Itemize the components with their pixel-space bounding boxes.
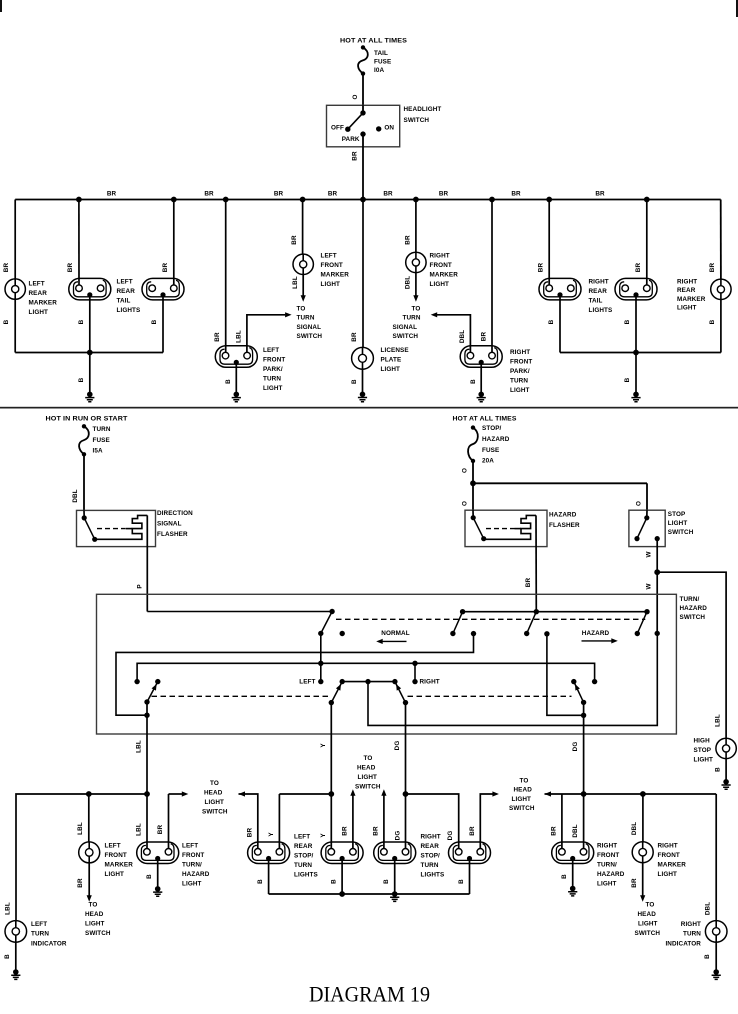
wire DBL right park/turn to arrow: [437, 315, 470, 353]
lamp RIGHT REAR TAIL LIGHTS (left): [539, 278, 581, 300]
svg-text:HEAD: HEAD: [85, 911, 104, 918]
hazard flasher arm: [473, 518, 484, 539]
svg-text:TAIL: TAIL: [374, 50, 388, 57]
hazard arm middle: [527, 612, 537, 634]
svg-text:BR: BR: [274, 191, 284, 198]
arrowhead marker to head light switch: [87, 895, 92, 902]
wire right tail A ground drop: [559, 295, 561, 353]
lamp LEFT FRONT PARK/TURN LIGHT: [215, 346, 257, 368]
value label STOP/HAZARD FUSE 20A: [482, 425, 510, 465]
svg-text:RIGHT: RIGHT: [597, 843, 617, 850]
svg-text:BR: BR: [214, 332, 221, 342]
svg-text:BR: BR: [372, 826, 379, 836]
svg-text:LIGHT: LIGHT: [381, 366, 401, 373]
wire right ground collector: [560, 352, 721, 354]
ground left turn indicator: [11, 969, 20, 979]
wire flasher input stub: [83, 510, 85, 518]
bus label BR x=278.5: [274, 191, 284, 198]
contact line C left: [134, 679, 139, 684]
bus label BR x=209: [204, 191, 214, 198]
svg-text:LIGHT: LIGHT: [658, 871, 678, 878]
svg-text:LIGHT: LIGHT: [358, 774, 378, 781]
svg-text:LBL: LBL: [136, 823, 143, 836]
label RIGHT TURN INDICATOR: [665, 921, 701, 947]
svg-text:W: W: [646, 583, 653, 589]
svg-text:SWITCH: SWITCH: [202, 808, 228, 815]
fuse STOP/HAZARD FUSE 20A: [468, 425, 478, 463]
junction right ground collector: [633, 350, 639, 356]
pivot rocker right: [403, 700, 408, 705]
svg-text:LIGHT: LIGHT: [638, 920, 658, 927]
junction on BR bus x=646.8: [644, 197, 650, 203]
svg-text:STOP/: STOP/: [482, 425, 502, 432]
node TO TURN SIGNAL SWITCH (left): [297, 305, 323, 340]
wire bus to license plate light: [362, 200, 364, 348]
svg-text:O: O: [352, 94, 359, 99]
svg-text:HAZARD: HAZARD: [680, 605, 708, 612]
svg-text:SWITCH: SWITCH: [85, 930, 111, 937]
svg-text:ON: ON: [384, 125, 394, 132]
wire P output of direction flasher: [146, 515, 148, 611]
svg-text:BR: BR: [595, 191, 605, 198]
svg-text:B: B: [4, 954, 11, 959]
hazard flasher box: [465, 510, 547, 546]
wire lamp3 ground drop: [341, 859, 343, 895]
wire DBL to right turn indicator: [715, 794, 717, 921]
contact turn arm end: [318, 631, 323, 636]
wire line B (LBL loop): [116, 634, 474, 716]
svg-text:LIGHT: LIGHT: [105, 871, 125, 878]
fuse TAIL FUSE 10A: [358, 45, 368, 76]
label PARK: [342, 136, 360, 143]
svg-text:TURN: TURN: [421, 862, 439, 869]
wire tail B ground drop: [162, 295, 164, 353]
svg-text:TURN: TURN: [294, 862, 312, 869]
svg-text:HEAD: HEAD: [638, 911, 657, 918]
svg-text:PARK/: PARK/: [263, 366, 283, 373]
label HAZARD: [582, 630, 610, 637]
svg-text:B: B: [458, 879, 465, 884]
arrowhead LBL to turn signal switch: [285, 312, 292, 317]
stop light switch arm: [637, 518, 647, 539]
arrowhead left pivot arm: [152, 683, 159, 691]
svg-text:BR: BR: [550, 826, 557, 836]
svg-text:TURN/: TURN/: [680, 596, 700, 603]
label RIGHT FRONT MARKER LIGHT (top): [430, 253, 459, 289]
svg-text:LEFT: LEFT: [321, 253, 337, 260]
svg-text:FRONT: FRONT: [658, 852, 680, 859]
svg-text:B: B: [624, 319, 631, 324]
svg-text:LIGHT: LIGHT: [694, 757, 714, 764]
arrowhead BR to head light switch (1): [182, 791, 189, 796]
wire bus end down to right rear marker: [720, 200, 722, 280]
direction signal flasher box: [77, 510, 156, 546]
wire lamp2 ground: [157, 859, 159, 887]
wire right front marker to turn signal switch: [415, 273, 417, 297]
svg-text:BR: BR: [3, 263, 10, 273]
svg-text:MARKER: MARKER: [29, 300, 58, 307]
svg-text:LIGHTS: LIGHTS: [117, 307, 141, 314]
junction left ground collector: [87, 350, 93, 356]
arrowhead to turn signal switch text (left): [301, 295, 306, 302]
svg-text:B: B: [561, 874, 568, 879]
wire DBL distribution right: [584, 793, 717, 795]
arrowhead to turn signal switch text (right): [413, 295, 418, 302]
svg-text:INDICATOR: INDICATOR: [31, 940, 67, 947]
svg-text:BR: BR: [631, 878, 638, 888]
wire bus to left tail lamp B: [173, 200, 175, 285]
svg-text:O: O: [461, 501, 468, 506]
ground left front turn/hazard: [153, 886, 162, 896]
rocker arm right: [395, 682, 406, 703]
net label HOT AT ALL TIMES (top): [340, 37, 407, 44]
svg-text:LIGHT: LIGHT: [510, 387, 530, 394]
svg-text:DG: DG: [447, 831, 454, 841]
svg-text:LIGHT: LIGHT: [321, 281, 341, 288]
svg-text:STOP: STOP: [694, 747, 712, 754]
wire fuse to headlight switch: [362, 74, 364, 106]
lamp LEFT REAR STOP/TURN LIGHTS (B): [321, 842, 363, 864]
arrowhead rocker arm right: [394, 683, 401, 691]
svg-text:TURN: TURN: [93, 426, 111, 433]
svg-text:RIGHT: RIGHT: [677, 279, 697, 286]
hazard arm right: [637, 612, 647, 634]
junction right pivot / hazard contact wire: [581, 713, 586, 718]
svg-text:BR: BR: [328, 191, 338, 198]
svg-text:SWITCH: SWITCH: [355, 783, 381, 790]
wire left front marker to head light switch: [88, 863, 90, 896]
svg-text:LBL: LBL: [292, 276, 299, 289]
contact normal (isolated): [340, 631, 345, 636]
bus label BR x=388: [383, 191, 393, 198]
label LEFT FRONT MARKER LIGHT (top): [321, 253, 350, 289]
arrowhead HAZARD: [611, 638, 618, 643]
wire BR arrow lamp2: [169, 793, 183, 795]
svg-text:DG: DG: [572, 742, 579, 752]
wire BR lamp6 left terminal: [561, 794, 563, 849]
svg-text:TURN: TURN: [683, 931, 701, 938]
svg-text:SWITCH: SWITCH: [635, 930, 661, 937]
svg-text:HOT AT ALL TIMES: HOT AT ALL TIMES: [340, 37, 407, 44]
bus label BR x=600: [595, 191, 605, 198]
svg-text:B: B: [3, 319, 10, 324]
svg-text:BR: BR: [511, 191, 521, 198]
rocker arm left: [331, 682, 342, 703]
wire W into turn/hazard switch: [656, 572, 658, 633]
svg-text:B: B: [146, 874, 153, 879]
junction W stop feed: [654, 569, 660, 575]
svg-text:TO: TO: [412, 305, 421, 312]
wire bus to right front marker: [415, 200, 417, 253]
svg-text:PARK: PARK: [342, 136, 360, 143]
arrowhead BR lamp5 to head light switch: [492, 791, 499, 796]
svg-text:MARKER: MARKER: [677, 296, 706, 303]
contact LEFT: [318, 679, 323, 684]
direction flasher arm: [84, 518, 95, 539]
wire DG to lamp4 right terminal: [405, 794, 407, 849]
svg-text:SWITCH: SWITCH: [404, 117, 430, 124]
lamp RIGHT REAR MARKER LIGHT: [711, 279, 731, 299]
svg-text:MARKER: MARKER: [105, 862, 134, 869]
label NORMAL: [381, 630, 409, 637]
svg-text:LIGHT: LIGHT: [29, 309, 49, 316]
label LEFT REAR MARKER LIGHT: [29, 281, 58, 317]
wire Y link: [279, 793, 331, 795]
wire rocker bar: [342, 681, 395, 683]
wire BR output of hazard flasher: [535, 515, 537, 611]
svg-text:SWITCH: SWITCH: [509, 805, 535, 812]
wire fuse to direction signal flasher: [83, 454, 85, 510]
svg-text:HAZARD: HAZARD: [182, 871, 210, 878]
right pivot arm: [574, 682, 584, 703]
svg-text:HIGH: HIGH: [694, 738, 711, 745]
svg-text:TURN: TURN: [510, 378, 528, 385]
wire right tail B ground drop: [635, 295, 637, 353]
wire DG output (stop/hazard to right front): [583, 702, 585, 794]
scan artifact tick top-right: [736, 0, 738, 17]
svg-text:DIRECTION: DIRECTION: [157, 510, 193, 517]
headlight switch box: [327, 105, 400, 147]
svg-text:REAR: REAR: [294, 843, 313, 850]
contact hazard feed left: [460, 609, 465, 614]
value label TURN FUSE 15A: [93, 426, 111, 455]
svg-text:TURN: TURN: [263, 376, 281, 383]
svg-text:LIGHTS: LIGHTS: [589, 307, 613, 314]
wire DBL to lamp6 right terminal: [583, 794, 585, 849]
svg-text:DBL: DBL: [72, 489, 79, 502]
svg-text:MARKER: MARKER: [321, 272, 350, 279]
svg-text:LIGHT: LIGHT: [430, 281, 450, 288]
net label HOT AT ALL TIMES (bottom): [453, 416, 517, 423]
stop light switch arm contact: [634, 536, 639, 541]
wire Y lamp3a right terminal: [278, 794, 280, 849]
svg-text:Y: Y: [268, 832, 275, 837]
svg-text:B: B: [624, 377, 631, 382]
svg-text:B: B: [470, 379, 477, 384]
svg-text:LBL: LBL: [136, 740, 143, 753]
svg-text:LEFT: LEFT: [294, 833, 310, 840]
svg-text:LIGHT: LIGHT: [85, 920, 105, 927]
svg-text:RIGHT: RIGHT: [510, 349, 530, 356]
svg-text:TO: TO: [297, 305, 306, 312]
ground right turn indicator: [712, 969, 721, 979]
wire turn arm to LEFT contact: [320, 633, 322, 681]
svg-text:TO: TO: [89, 901, 98, 908]
svg-text:TO: TO: [646, 901, 655, 908]
svg-text:BR: BR: [107, 191, 117, 198]
wire lamp3a ground drop: [268, 859, 270, 895]
wire W stop output: [656, 539, 658, 573]
svg-text:FUSE: FUSE: [374, 59, 391, 66]
bus label BR x=443.5: [439, 191, 449, 198]
svg-text:FRONT: FRONT: [321, 262, 343, 269]
lamp LEFT REAR TAIL LIGHTS (left): [69, 278, 111, 300]
svg-text:O: O: [636, 501, 643, 506]
svg-text:PARK/: PARK/: [510, 368, 530, 375]
label RIGHT: [420, 679, 440, 686]
junction LBL from switch: [144, 791, 150, 797]
label LICENSE PLATE LIGHT: [381, 347, 409, 373]
wire left park/turn ground: [235, 362, 237, 394]
arrowhead BR lamp3a to head light switch: [239, 791, 246, 796]
svg-text:20A: 20A: [482, 457, 494, 464]
headlight switch arm to OFF: [348, 113, 363, 129]
dashed mechanical link row A: [336, 618, 645, 620]
label LEFT FRONT PARK/TURN LIGHT: [263, 347, 285, 392]
ground right rear lights: [631, 392, 640, 402]
arrowhead right pivot arm: [573, 683, 580, 691]
lamp RIGHT FRONT PARK/TURN LIGHT: [460, 346, 502, 368]
wire high stop light ground: [725, 759, 727, 780]
label DIRECTION SIGNAL FLASHER: [157, 510, 193, 538]
svg-text:LICENSE: LICENSE: [381, 347, 409, 354]
svg-text:BR: BR: [469, 826, 476, 836]
wire LBL to lamp2 left terminal: [146, 794, 148, 849]
svg-text:B: B: [78, 319, 85, 324]
label TURN/HAZARD SWITCH: [680, 596, 708, 621]
svg-text:BR: BR: [481, 332, 488, 342]
svg-text:STOP: STOP: [668, 511, 686, 518]
wire bus to left rear marker: [14, 200, 16, 279]
junction line C / LEFT: [318, 661, 323, 666]
wire DG output (right rear turn): [405, 703, 407, 794]
label RIGHT REAR MARKER LIGHT: [677, 279, 706, 312]
arrowhead BR lamp3 to head light switch: [350, 789, 355, 796]
headlight switch input contact: [360, 110, 365, 115]
label LEFT TURN INDICATOR: [31, 921, 67, 947]
node TO TURN SIGNAL SWITCH (right): [393, 305, 421, 340]
lamp LEFT REAR TAIL LIGHTS (right): [142, 278, 184, 300]
svg-text:LIGHTS: LIGHTS: [421, 871, 445, 878]
wire right rear marker to ground line: [720, 300, 722, 353]
stop light switch output contact: [655, 536, 660, 541]
lamp RIGHT FRONT MARKER LIGHT (top): [406, 252, 426, 272]
contact stop feed: [655, 631, 660, 636]
svg-text:BR: BR: [439, 191, 449, 198]
node TO HEAD LIGHT SWITCH (5): [635, 901, 661, 937]
svg-text:FRONT: FRONT: [430, 262, 452, 269]
svg-text:BR: BR: [709, 263, 716, 273]
svg-text:SWITCH: SWITCH: [668, 529, 694, 536]
arrow line HAZARD: [582, 640, 614, 642]
label LEFT FRONT TURN/HAZARD LIGHT: [182, 843, 210, 888]
svg-text:BR: BR: [157, 825, 164, 835]
arrowhead rocker arm left: [336, 683, 343, 691]
lamp RIGHT REAR STOP/TURN LIGHTS (B): [449, 842, 491, 864]
svg-text:LIGHTS: LIGHTS: [294, 871, 318, 878]
svg-text:DG: DG: [395, 831, 402, 841]
junction line B to LBL output: [144, 713, 149, 718]
contact turn feed: [329, 609, 334, 614]
svg-text:HEAD: HEAD: [204, 789, 223, 796]
contact PARK: [360, 131, 365, 136]
ground left park/turn: [232, 392, 241, 402]
svg-text:MARKER: MARKER: [430, 272, 459, 279]
svg-text:LEFT: LEFT: [182, 843, 198, 850]
ground rear stop/turn lights: [390, 891, 399, 901]
hazard flasher heater element: [484, 515, 536, 539]
wire right ground stem: [635, 353, 637, 395]
label OFF: [331, 125, 344, 132]
label LEFT REAR TAIL LIGHTS: [117, 278, 141, 314]
lamp RIGHT FRONT TURN/HAZARD LIGHT: [552, 842, 594, 864]
stop light switch box: [629, 510, 665, 546]
svg-text:FLASHER: FLASHER: [549, 522, 580, 529]
junction Y node: [328, 791, 334, 797]
svg-text:LIGHT: LIGHT: [512, 796, 532, 803]
lamp LEFT FRONT TURN/HAZARD LIGHT: [137, 842, 179, 864]
junction on BR bus x=173.8: [171, 197, 177, 203]
wire right front marker to head light switch: [642, 863, 644, 896]
svg-text:BR: BR: [404, 235, 411, 245]
contact left pivot upper: [155, 679, 160, 684]
svg-text:TURN: TURN: [31, 931, 49, 938]
svg-text:OFF: OFF: [331, 125, 344, 132]
wire LBL distribution left: [16, 794, 147, 921]
arrow line NORMAL: [378, 640, 406, 642]
svg-text:LBL: LBL: [715, 714, 722, 727]
svg-text:B: B: [351, 379, 358, 384]
svg-text:BR: BR: [77, 878, 84, 888]
fuse TURN FUSE 15A: [79, 424, 89, 456]
svg-text:LIGHT: LIGHT: [182, 881, 202, 888]
label STOP LIGHT SWITCH: [668, 511, 694, 536]
svg-text:LEFT: LEFT: [117, 278, 133, 285]
lamp LICENSE PLATE LIGHT: [352, 347, 374, 369]
svg-text:DIAGRAM 19: DIAGRAM 19: [309, 982, 430, 1007]
junction line C / RIGHT: [412, 661, 417, 666]
svg-text:HEADLIGHT: HEADLIGHT: [404, 106, 442, 113]
scan artifact tick top-left: [0, 0, 2, 12]
svg-text:FRONT: FRONT: [263, 357, 285, 364]
svg-text:FLASHER: FLASHER: [157, 531, 188, 538]
svg-text:DBL: DBL: [459, 330, 466, 343]
svg-text:BR: BR: [383, 191, 393, 198]
svg-text:BR: BR: [635, 263, 642, 273]
svg-text:REAR: REAR: [589, 288, 608, 295]
wire license ground: [362, 369, 364, 394]
arrowhead right marker to head light switch: [640, 895, 645, 902]
svg-text:Y: Y: [320, 833, 327, 838]
svg-text:BR: BR: [67, 263, 74, 273]
label HAZARD FLASHER: [549, 511, 580, 529]
wire tail A ground drop: [89, 295, 91, 353]
wire hazard flasher input stub: [472, 510, 474, 518]
junction LBL / left front marker: [86, 791, 92, 797]
wire stop feed to rocker centre: [368, 633, 657, 725]
contact line B: [471, 631, 476, 636]
junction on BR bus x=363: [360, 197, 366, 203]
svg-text:HAZARD: HAZARD: [597, 871, 625, 878]
wire line C to RIGHT contact: [414, 663, 416, 681]
hazard flasher arm contact: [481, 536, 486, 541]
svg-text:TO: TO: [520, 777, 529, 784]
wire rear ground collector: [269, 893, 470, 895]
svg-text:HEAD: HEAD: [357, 764, 376, 771]
left pivot: [144, 699, 149, 704]
svg-text:RIGHT: RIGHT: [430, 253, 450, 260]
wire Y output (left rear turn): [330, 703, 332, 794]
svg-text:TAIL: TAIL: [117, 297, 131, 304]
contact rocker left: [340, 679, 345, 684]
svg-text:O: O: [461, 468, 468, 473]
wire switch input stub: [362, 105, 364, 113]
hazard arm left: [453, 612, 463, 634]
label RIGHT FRONT TURN/HAZARD LIGHT: [597, 843, 625, 888]
turn/hazard switch box: [97, 594, 677, 734]
svg-text:FUSE: FUSE: [93, 437, 110, 444]
wire stop switch input stub: [646, 510, 648, 518]
